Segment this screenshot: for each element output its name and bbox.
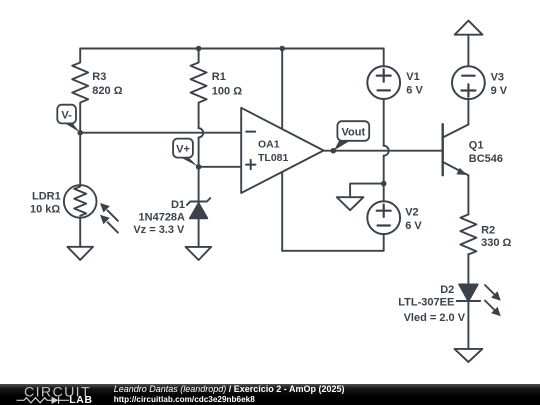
svg-text:D1: D1 bbox=[171, 199, 185, 211]
svg-text:LAB: LAB bbox=[69, 395, 92, 405]
transistor Q1 bbox=[442, 124, 444, 175]
D2 light arrow 2 bbox=[485, 301, 496, 312]
V1 minus sign bbox=[378, 89, 390, 91]
svg-text:D2: D2 bbox=[440, 284, 454, 296]
junction dot supply midpoint bbox=[381, 181, 387, 187]
svg-text:BC546: BC546 bbox=[469, 153, 503, 165]
junction dot node V+ bbox=[196, 164, 202, 170]
svg-text:V1: V1 bbox=[406, 71, 419, 83]
svg-text:820 Ω: 820 Ω bbox=[92, 85, 122, 97]
op-amp negative supply stub bbox=[281, 172, 283, 251]
wire R1 to V+ junction bbox=[198, 137, 200, 166]
D2 cathode bar bbox=[457, 300, 481, 302]
wire V+ junction down through D1 to ground bbox=[198, 167, 200, 247]
LDR1 light arrow 1 bbox=[108, 210, 118, 220]
voltage source V1 circle bbox=[367, 66, 400, 99]
svg-text:6 V: 6 V bbox=[405, 220, 422, 232]
svg-text:OA1: OA1 bbox=[258, 138, 280, 150]
wire V1 bottom down bbox=[383, 99, 385, 146]
V1 plus sign bbox=[377, 69, 391, 81]
resistor R1 bbox=[191, 49, 207, 129]
junction dot node V- bbox=[77, 130, 83, 136]
node label V+ bbox=[173, 139, 198, 167]
junction dot node Vout bbox=[331, 148, 337, 154]
Q1 emitter arrow head bbox=[456, 168, 466, 175]
svg-text:Vz = 3.3 V: Vz = 3.3 V bbox=[133, 224, 185, 236]
wire R2 to D2 bbox=[467, 254, 469, 284]
V3 minus sign bbox=[462, 75, 474, 77]
svg-text:TL081: TL081 bbox=[258, 152, 289, 164]
svg-text:R3: R3 bbox=[92, 71, 106, 83]
voltage source V2 circle bbox=[367, 201, 400, 234]
svg-text:Q1: Q1 bbox=[469, 140, 484, 152]
op-amp U1 triangle bbox=[241, 108, 323, 193]
resistor R2 bbox=[460, 214, 476, 254]
svg-text:Vled = 2.0 V: Vled = 2.0 V bbox=[404, 312, 466, 324]
svg-text:100 Ω: 100 Ω bbox=[212, 86, 242, 98]
wire V3 bottom to Q1 collector bbox=[467, 99, 469, 124]
wire hop to mid junction and V2 bbox=[383, 156, 385, 202]
wire V- node to op-amp minus input bbox=[80, 132, 241, 134]
svg-text:10 kΩ: 10 kΩ bbox=[30, 203, 60, 215]
zener diode D1 bbox=[190, 203, 207, 218]
op-amp minus sign bbox=[246, 131, 255, 133]
logo wire with resistor and diode bbox=[17, 397, 70, 404]
svg-text:Vout: Vout bbox=[341, 127, 365, 139]
ground under LDR1 bbox=[67, 247, 93, 260]
diode D2 LED triangle bbox=[459, 284, 478, 301]
wire top rail bbox=[80, 48, 384, 50]
svg-text:1N4728A: 1N4728A bbox=[139, 212, 186, 224]
node label Vout bbox=[334, 121, 369, 150]
ground under D2 bbox=[455, 349, 483, 362]
wire mid junction to ground bbox=[350, 184, 384, 198]
V3 plus sign bbox=[461, 84, 475, 96]
svg-text:LDR1: LDR1 bbox=[32, 190, 61, 202]
svg-text:330 Ω: 330 Ω bbox=[481, 237, 511, 249]
wire V2 bottom to op-amp negative supply bbox=[282, 234, 384, 251]
LDR1 inner zigzag bbox=[74, 187, 86, 216]
Q1 emitter diagonal bbox=[443, 162, 469, 175]
footer bar bbox=[0, 384, 540, 405]
node label V- bbox=[57, 105, 79, 133]
resistor R3 bbox=[72, 49, 88, 133]
wire V+ node to op-amp plus input bbox=[199, 166, 242, 168]
wire op-amp output to Q1 base bbox=[324, 150, 443, 152]
svg-text:9 V: 9 V bbox=[491, 85, 508, 97]
power flag arrow V3 bbox=[455, 21, 483, 35]
D2 light arrow 1 bbox=[485, 285, 496, 296]
wire hop V1 wire over output wire bbox=[384, 146, 389, 156]
V2 minus sign bbox=[378, 224, 390, 226]
svg-text:LTL-307EE: LTL-307EE bbox=[398, 296, 454, 308]
svg-text:6 V: 6 V bbox=[406, 85, 423, 97]
ground under D1 bbox=[186, 247, 212, 260]
svg-text:R1: R1 bbox=[212, 71, 226, 83]
junction dot top rail op-amp supply bbox=[279, 46, 285, 52]
svg-text:http://circuitlab.com/cdc3e29n: http://circuitlab.com/cdc3e29nb6ek8 bbox=[114, 395, 256, 404]
op-amp plus sign bbox=[246, 160, 255, 169]
photoresistor LDR1 circle bbox=[64, 185, 97, 218]
wire D2 to ground bbox=[467, 301, 469, 349]
op-amp positive supply stub bbox=[281, 49, 283, 130]
junction dot top rail R1 bbox=[196, 46, 202, 52]
logo diode triangle bbox=[52, 397, 59, 404]
wire LDR bottom to ground bbox=[79, 218, 81, 247]
svg-text:Leandro Dantas (leandropd) / E: Leandro Dantas (leandropd) / Exercício 2… bbox=[114, 384, 345, 394]
svg-text:V3: V3 bbox=[491, 72, 504, 84]
wire Q1 emitter down to R2 bbox=[467, 175, 469, 214]
svg-text:V+: V+ bbox=[176, 144, 190, 156]
wire V1 top drop bbox=[383, 49, 385, 67]
LDR1 light arrow 2 bbox=[108, 222, 118, 232]
voltage source V3 circle bbox=[452, 66, 485, 99]
svg-text:V-: V- bbox=[61, 109, 72, 121]
D1 zener cathode bar with ticks bbox=[187, 198, 210, 205]
wire power flag to V3 bbox=[467, 35, 469, 67]
Q1 collector diagonal bbox=[443, 125, 469, 138]
wire hop R1 over V- wire bbox=[199, 128, 204, 137]
V2 plus sign bbox=[377, 205, 391, 217]
ground mid supply bbox=[337, 197, 364, 210]
wire V- junction down to LDR bbox=[79, 133, 81, 186]
svg-text:V2: V2 bbox=[405, 207, 418, 219]
svg-text:R2: R2 bbox=[481, 225, 495, 237]
